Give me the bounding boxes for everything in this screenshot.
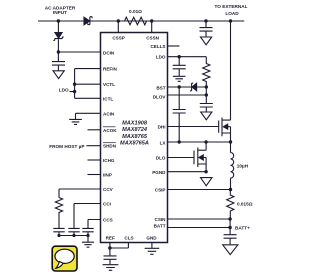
node LX boost cap (178, 140, 181, 143)
svg-text:CELLS: CELLS (150, 44, 165, 49)
svg-text:CSSP: CSSP (112, 36, 125, 41)
wire PGND (168, 171, 207, 173)
resistor R4 LDO-BST (203, 57, 210, 87)
wire ACIN (76, 113, 101, 119)
diode D3 BST bootstrap (192, 83, 197, 90)
wire CSSN stub (151, 21, 153, 33)
node LDO tie (73, 90, 76, 93)
logo maxim box (52, 246, 77, 271)
ground DCIN triangle (53, 71, 64, 79)
ground comp network (82, 242, 94, 247)
node BST (178, 85, 181, 88)
node BATT (228, 226, 231, 229)
wire REFIN-VCTL-ICTL tie (70, 69, 101, 99)
ground ACIN (69, 119, 82, 124)
wire LX (168, 141, 231, 143)
wire CSIP (168, 189, 231, 191)
svg-text:GND: GND (146, 236, 157, 241)
capacitor C1 DCIN bypass (52, 52, 65, 71)
svg-text:DHI: DHI (158, 125, 166, 130)
wire source Q1 to LX (230, 127, 232, 142)
svg-text:CCV: CCV (103, 187, 114, 192)
ground PGND triangle (201, 178, 213, 186)
svg-text:CSIP: CSIP (155, 187, 166, 192)
wire LDO (168, 56, 207, 58)
svg-text:DLO: DLO (156, 156, 166, 161)
ground LDO (173, 76, 186, 81)
wire DCIN branch vertical (57, 21, 59, 52)
node CSSP (117, 19, 120, 22)
wire REF-CLS (110, 243, 128, 256)
wire top rail (38, 20, 244, 22)
wire CCV (59, 189, 101, 198)
IC U1 MAX1908/MAX8724/MAX8765/MAX8765A body (101, 33, 168, 243)
wire drain Q2 to LX (205, 142, 207, 150)
transistor Q1 high-side nmos (219, 118, 231, 137)
wire DLOV (168, 87, 207, 103)
node LX Q2 drain (204, 140, 207, 143)
svg-text:CSIN: CSIN (155, 217, 167, 222)
svg-text:REFIN: REFIN (103, 67, 117, 72)
svg-text:MAX8724: MAX8724 (122, 127, 148, 133)
wire BST (168, 86, 207, 88)
wire ACOK stub (88, 129, 101, 131)
capacitor C4 DLOV bypass (200, 104, 213, 112)
ground DLOV triangle (201, 112, 212, 120)
capacitor C9 CCS comp (82, 228, 93, 235)
svg-text:VCTL: VCTL (103, 82, 115, 87)
inductor L1 10uH (230, 142, 232, 153)
capacitor C8 CCI comp (68, 228, 79, 235)
node CSIP (229, 188, 232, 191)
node adapter/D2 (57, 19, 60, 22)
wire CELLS stub (168, 45, 180, 47)
node DCIN (57, 50, 60, 53)
svg-text:FROM HOST µP: FROM HOST µP (49, 144, 84, 149)
svg-text:0.01Ω: 0.01Ω (129, 9, 142, 14)
node REF-CLS (108, 246, 111, 249)
svg-text:LDO: LDO (156, 55, 166, 60)
svg-text:PGND: PGND (152, 170, 166, 175)
node PGND (204, 170, 207, 173)
wire DCIN (58, 51, 100, 53)
capacitor C5 BST-LX boost (173, 87, 186, 142)
svg-text:CCS: CCS (103, 218, 113, 223)
svg-text:LX: LX (160, 140, 167, 145)
svg-text:TO EXTERNAL: TO EXTERNAL (215, 4, 248, 9)
capacitor C6 battery (224, 235, 237, 245)
wire comp common (59, 236, 88, 242)
node Q1 drain rail (229, 19, 232, 22)
wire source Q2 to PGND (205, 158, 207, 172)
svg-text:ICTL: ICTL (103, 96, 113, 101)
wire to external load cap (205, 21, 207, 27)
node DLOV (205, 93, 208, 96)
node load cap (204, 19, 207, 22)
node LX inductor (229, 140, 232, 143)
transistor Q2 low-side nmos (194, 148, 206, 168)
node CSSN (150, 19, 153, 22)
wire ICHG stub (88, 159, 101, 161)
svg-text:MAX8765A: MAX8765A (120, 141, 149, 147)
ground BATT triangle (223, 245, 238, 255)
capacitor C2 load bypass (200, 28, 213, 37)
wire CSSP stub (117, 21, 119, 33)
wire IINP stub (88, 174, 101, 176)
svg-text:DCIN: DCIN (103, 50, 115, 55)
svg-text:LOAD: LOAD (225, 11, 239, 16)
svg-text:REF: REF (106, 236, 115, 241)
svg-text:10µH: 10µH (237, 164, 249, 169)
svg-text:CLS: CLS (124, 236, 133, 241)
svg-text:SHDN: SHDN (103, 144, 117, 149)
resistor R1 0.01ohm sense (118, 17, 151, 25)
svg-text:ACOK: ACOK (103, 128, 117, 133)
node CSIN (228, 217, 231, 220)
wire GND pin stub (151, 243, 153, 248)
wire DHI (168, 126, 219, 128)
svg-text:CSSN: CSSN (146, 36, 159, 41)
wire CCS (88, 220, 101, 229)
node VCTL (73, 83, 76, 86)
ground load cap triangle (201, 37, 212, 45)
node BST diode/resistor (205, 85, 208, 88)
wire DLO (168, 157, 195, 159)
capacitor C10 REF bypass (104, 256, 117, 264)
resistor R3 CCV comp (55, 198, 62, 229)
svg-text:LDO: LDO (59, 87, 69, 92)
svg-text:MAX8765: MAX8765 (122, 134, 148, 140)
wire CSIN (168, 218, 231, 220)
node LDO cap (178, 55, 181, 58)
svg-text:BATT+: BATT+ (235, 225, 250, 230)
node comp CCS (86, 234, 89, 237)
wire SHDN from host (86, 145, 100, 147)
svg-text:IINP: IINP (103, 173, 112, 178)
svg-text:BATT: BATT (154, 224, 166, 229)
svg-text:ACIN: ACIN (103, 111, 115, 116)
svg-text:ICHG: ICHG (103, 158, 115, 163)
capacitor C3 LDO bypass (173, 57, 186, 76)
node comp CCI (57, 234, 60, 237)
resistor R2 0.015ohm sense (227, 190, 234, 220)
ground GND pin (145, 248, 160, 254)
logo speech bubble (55, 249, 74, 263)
svg-text:CCI: CCI (103, 202, 111, 207)
ground REF (103, 265, 119, 271)
svg-text:BST: BST (156, 86, 165, 91)
capacitor C7 CCV comp (53, 228, 64, 235)
wire BATT (168, 219, 231, 234)
wire CCI (74, 204, 101, 229)
svg-text:0.015Ω: 0.015Ω (237, 202, 253, 207)
svg-text:INPUT: INPUT (53, 10, 67, 15)
diode D1 adapter series (84, 17, 90, 25)
svg-text:MAX1908: MAX1908 (122, 121, 148, 127)
svg-text:DLOV: DLOV (153, 95, 167, 100)
diode D2 schottky to DCIN (55, 33, 62, 39)
wire drain Q1 from rail (230, 21, 232, 120)
